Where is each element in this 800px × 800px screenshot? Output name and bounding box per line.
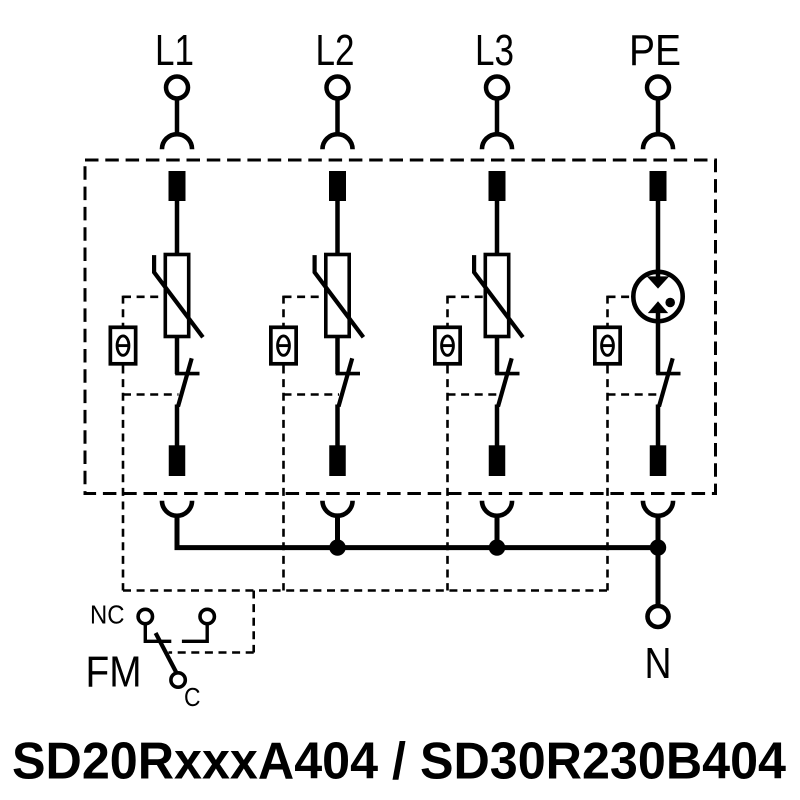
mechanical linkage theta1 down-lead to signal bar (dashed): [122, 366, 125, 591]
varistor RV1: [154, 255, 203, 338]
plug-in socket L1 top: [162, 134, 192, 149]
svg-text:L2: L2: [316, 26, 355, 75]
plug contact L3 bottom: [489, 445, 506, 476]
svg-text:NC: NC: [90, 600, 125, 630]
wire bus to N terminal: [656, 548, 661, 607]
wire L1 disconnector to bottom plug: [175, 405, 180, 447]
terminal PE circle: [647, 77, 669, 99]
thermal sensing element theta3 linkage to protection element (dashed): [448, 295, 486, 298]
junction node L3-bus: [489, 539, 505, 555]
FM changeover switch blade: [156, 633, 177, 674]
gas discharge tube F1 (spark gap): [633, 272, 682, 321]
thermal disconnector switch S1: [175, 358, 199, 406]
junction node L2-bus: [329, 539, 345, 555]
mechanical linkage theta3 down-lead to signal bar (dashed): [446, 366, 449, 591]
thermal sensing element theta4: [595, 327, 620, 364]
FM contact NO terminal: [200, 609, 214, 623]
wire L3 disconnector to bottom plug: [495, 405, 500, 447]
junction node PE-bus: [650, 539, 666, 555]
plug contact PE bottom: [650, 445, 667, 476]
wire L3 socket to bus: [495, 517, 500, 550]
thermal disconnector switch S3: [495, 358, 519, 406]
svg-text:N: N: [645, 640, 672, 688]
wire PE plug to gas discharge tube: [656, 201, 661, 278]
wire L1 socket to PE bus: [175, 517, 180, 550]
thermal sensing element theta2 linkage to protection element (dashed): [284, 295, 326, 298]
thermal disconnector switch S4: [656, 358, 680, 406]
thermal sensing element theta3 upper dashed lead: [446, 296, 449, 326]
wire L3 terminal to socket: [495, 99, 500, 137]
terminal L2 circle: [327, 77, 349, 99]
wire L2 disconnector to bottom plug: [335, 405, 340, 447]
thermal sensing element theta2: [271, 327, 296, 364]
thermal sensing element theta1 linkage to protection element (dashed): [123, 295, 165, 298]
FM contact C terminal: [171, 673, 185, 687]
svg-text:C: C: [184, 682, 201, 712]
plug contact L1 bottom: [169, 445, 186, 476]
svg-text:L3: L3: [475, 26, 514, 75]
thermal sensing element theta3: [435, 327, 460, 364]
bus wire (bottom equipotential): [175, 545, 659, 550]
plug contact L1 top: [169, 171, 186, 201]
wire PE disconnector to bottom plug: [656, 405, 661, 447]
signal linkage drop to FM contact (dashed): [252, 591, 255, 653]
plug contact L3 top: [489, 171, 506, 201]
mechanical linkage theta4 to switch S4 (dashed): [608, 393, 660, 396]
mechanical linkage theta2 to switch S2 (dashed): [284, 393, 340, 396]
mechanical linkage theta3 to switch S3 (dashed): [448, 393, 499, 396]
FM contact NC terminal lead: [145, 623, 171, 641]
terminal L3 circle: [486, 77, 508, 99]
mechanical linkage theta2 down-lead to signal bar (dashed): [282, 366, 285, 591]
FM contact NO terminal lead: [182, 623, 207, 641]
svg-text:SD20RxxxA404 / SD30R230B404: SD20RxxxA404 / SD30R230B404: [12, 733, 786, 791]
SPD device enclosure (dashed): [85, 160, 716, 494]
plug-in socket PE top: [643, 134, 673, 149]
varistor RV3: [474, 255, 523, 338]
thermal sensing element theta1 upper dashed lead: [122, 296, 125, 326]
wire L1 plug to varistor: [175, 201, 180, 256]
thermal sensing element theta1: [110, 327, 135, 364]
wire L2 varistor to disconnector: [335, 337, 340, 375]
wire L2 terminal to socket: [335, 99, 340, 137]
wire L3 plug to varistor: [495, 201, 500, 256]
wire L2 plug to varistor: [335, 201, 340, 256]
varistor RV2: [315, 255, 364, 338]
wire PE socket to bus: [656, 517, 661, 550]
thermal sensing element theta4 upper dashed lead: [606, 296, 609, 326]
plug contact L2 top: [329, 171, 346, 201]
plug-in socket L2 bottom: [322, 501, 352, 516]
mechanical linkage theta4 down-lead to signal bar (dashed): [606, 366, 609, 591]
signal linkage bar (dashed): [123, 589, 608, 592]
signal linkage into FM contact (dashed): [169, 651, 254, 654]
plug contact PE top: [650, 171, 667, 201]
wire PE gas discharge tube to disconnector: [656, 311, 661, 374]
wire L1 terminal to socket: [175, 99, 180, 137]
plug-in socket L2 top: [322, 134, 352, 149]
terminal N circle: [648, 606, 669, 627]
thermal sensing element theta4 linkage to protection element (dashed): [608, 295, 634, 298]
wire PE terminal to socket: [656, 99, 661, 137]
plug-in socket PE bottom: [643, 501, 673, 516]
plug-in socket L3 top: [482, 134, 512, 149]
wire L1 varistor to disconnector: [175, 337, 180, 375]
plug-in socket L3 bottom: [482, 501, 512, 516]
wire L2 socket to bus: [335, 517, 340, 550]
FM contact NC terminal: [138, 609, 152, 623]
svg-text:L1: L1: [155, 26, 194, 75]
plug-in socket L1 bottom: [162, 501, 192, 516]
plug contact L2 bottom: [329, 445, 346, 476]
thermal sensing element theta2 upper dashed lead: [282, 296, 285, 326]
wire L3 varistor to disconnector: [495, 337, 500, 375]
thermal disconnector switch S2: [336, 358, 360, 406]
mechanical linkage theta1 to switch S1 (dashed): [123, 393, 179, 396]
svg-text:PE: PE: [629, 26, 681, 75]
terminal L1 circle: [166, 77, 188, 99]
svg-text:FM: FM: [86, 649, 142, 697]
